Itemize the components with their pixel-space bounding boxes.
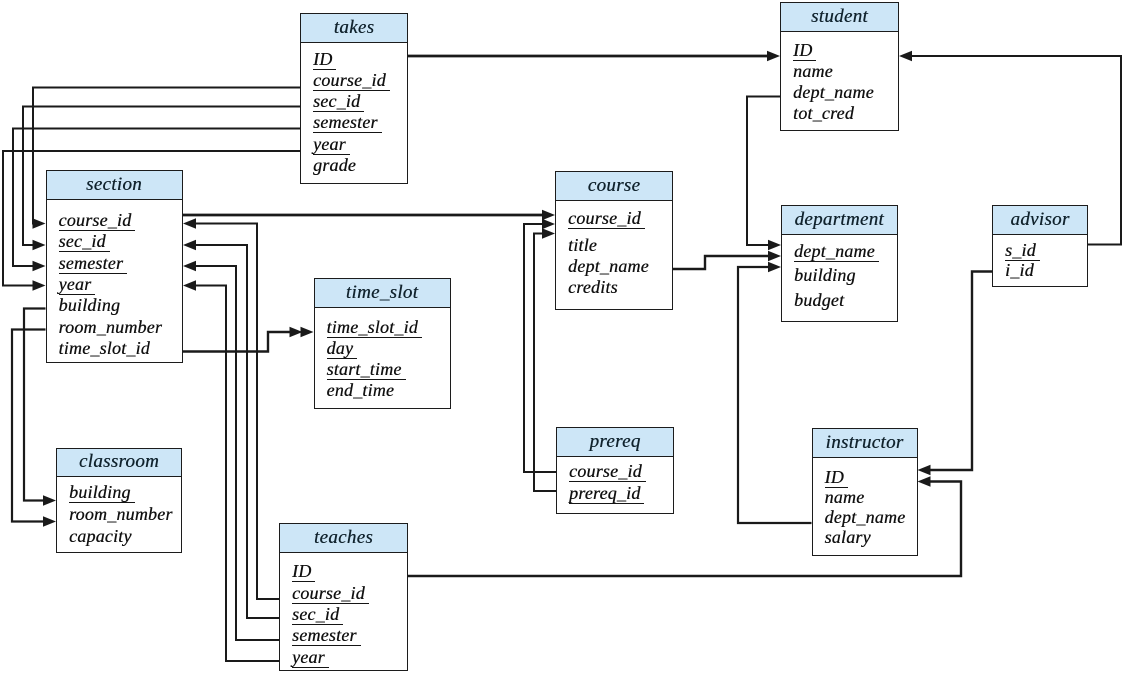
wire instructor.dept_name to department xyxy=(738,267,812,523)
arrowhead into section.course_id right xyxy=(183,218,196,228)
wire teaches.semester to section xyxy=(191,266,279,640)
table section xyxy=(46,170,183,363)
wire teaches.course_id to section xyxy=(191,224,279,600)
arrowhead into instructor.ID from teaches.ID xyxy=(918,476,931,486)
wire takes.semester to section.semester xyxy=(13,129,300,267)
wire prereq.course_id to course xyxy=(524,224,556,472)
wire section.building to classroom.building xyxy=(24,309,48,501)
table department xyxy=(781,205,898,322)
table instructor xyxy=(812,428,918,557)
table student xyxy=(780,2,899,131)
arrowhead into course from prereq.course_id xyxy=(542,219,555,229)
wire takes.ID to student.ID xyxy=(408,55,772,58)
arrowhead into course from prereq.prereq_id xyxy=(542,228,555,238)
arrowhead into course.course_id from section xyxy=(542,210,555,220)
arrowhead into student.ID right xyxy=(899,51,912,61)
arrowhead into section.course_id left xyxy=(33,218,46,228)
wire section.time_slot_id to time_slot xyxy=(183,332,294,352)
wire prereq.prereq_id to course xyxy=(534,234,556,492)
arrowhead into section.sec_id left xyxy=(33,240,46,250)
arrowhead into section.sec_id right xyxy=(183,240,196,250)
wire takes.year to section.year xyxy=(3,151,300,286)
wire section.room_number to classroom.room_number xyxy=(12,330,48,522)
arrowhead into department 1 (from student) xyxy=(768,240,781,250)
wire advisor.s_id to student.ID xyxy=(907,56,1121,245)
arrowhead into section.year left xyxy=(33,280,46,290)
arrowhead into classroom.room_number xyxy=(43,516,56,526)
table time_slot xyxy=(314,278,451,409)
arrowhead into department 2 (from course) xyxy=(768,251,781,261)
arrowhead into section.semester right xyxy=(183,261,196,271)
wire advisor.i_id to instructor.ID xyxy=(926,272,993,471)
wire takes.course_id to section.course_id xyxy=(33,88,300,224)
arrowhead into section.semester left xyxy=(33,261,46,271)
wire teaches.year to section xyxy=(191,286,279,662)
wire teaches.ID to instructor.ID xyxy=(408,482,961,577)
wire teaches.sec_id to section xyxy=(191,245,279,618)
arrowhead into instructor.ID from advisor.i_id xyxy=(918,465,931,475)
table course xyxy=(555,171,673,310)
table teaches xyxy=(279,523,408,671)
table advisor xyxy=(992,205,1088,288)
table classroom xyxy=(56,448,182,553)
wire section.course_id to course.course_id xyxy=(183,214,547,217)
wire takes.sec_id to section.sec_id xyxy=(23,107,300,246)
wire course.dept_name to department xyxy=(673,256,773,269)
double arrowhead into time_slot xyxy=(301,327,314,337)
arrowhead into department 3 (from instructor) xyxy=(768,262,781,272)
arrowhead into classroom.building xyxy=(43,495,56,505)
arrowhead into section.year right xyxy=(183,280,196,290)
wire student.dept_name to department xyxy=(747,97,780,246)
arrowhead into student.ID left xyxy=(767,51,780,61)
table takes xyxy=(300,13,408,185)
table prereq xyxy=(556,427,674,514)
